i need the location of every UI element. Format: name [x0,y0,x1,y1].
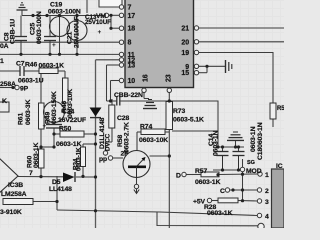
svg-text:0A: 0A [0,43,9,50]
svg-text:15: 15 [181,70,189,77]
svg-text:0603-100N: 0603-100N [48,9,81,16]
svg-text:9P: 9P [20,86,29,93]
svg-text:R73: R73 [173,108,185,115]
svg-text:0603-1K: 0603-1K [56,141,82,148]
svg-text:13: 13 [128,63,136,70]
svg-text:0603-5.1K: 0603-5.1K [173,117,204,124]
svg-text:C24: C24 [62,109,74,116]
svg-text:16V22UF: 16V22UF [58,117,86,124]
svg-text:25V10UF: 25V10UF [85,19,111,26]
svg-text:18: 18 [128,26,136,33]
svg-text:D: D [176,173,181,180]
svg-text:0603-2.7K: 0603-2.7K [124,122,131,153]
svg-text:VM: VM [96,13,106,20]
svg-text:SG: SG [247,160,255,166]
svg-text:R74: R74 [140,124,152,131]
svg-text:0603-1K: 0603-1K [195,179,221,186]
svg-text:0603-1K: 0603-1K [207,210,233,217]
svg-text:2: 2 [265,188,269,195]
svg-text:0603-3K: 0603-3K [25,99,32,125]
svg-text:LM258A: LM258A [1,191,27,198]
svg-text:R57: R57 [195,168,207,175]
svg-text:0603-1K: 0603-1K [76,147,83,171]
svg-text:16: 16 [143,74,150,82]
svg-text:R61: R61 [18,113,25,125]
svg-text:2F: 2F [121,151,129,158]
svg-text:0603-1U: 0603-1U [18,78,44,85]
svg-text:R5: R5 [277,106,284,112]
svg-text:+: + [43,123,47,130]
svg-text:19: 19 [181,50,189,57]
svg-text:23: 23 [165,74,172,82]
svg-text:3-910K: 3-910K [0,209,22,216]
svg-text:25V100UF: 25V100UF [74,16,81,48]
svg-text:7: 7 [128,5,132,12]
svg-text:DVCC: DVCC [105,133,112,151]
svg-text:pp: pp [99,156,107,163]
svg-text:0603-150K: 0603-150K [51,91,58,124]
svg-text:0603-10K: 0603-10K [139,137,168,144]
svg-text:1: 1 [265,172,269,179]
svg-text:C19: C19 [50,2,62,9]
svg-text:+: + [98,29,102,36]
svg-text:+: + [52,42,56,49]
svg-text:D5: D5 [52,179,61,186]
svg-text:0603-1K: 0603-1K [39,63,65,70]
svg-text:4: 4 [265,214,269,221]
svg-text:1: 1 [0,58,4,65]
svg-text:C21: C21 [67,32,74,44]
svg-text:0603-100N: 0603-100N [36,11,43,44]
svg-text:17: 17 [128,13,136,20]
svg-text:MOD: MOD [246,168,262,175]
svg-text:0603-1N: 0603-1N [213,130,220,156]
svg-text:C: C [220,188,225,195]
svg-text:21: 21 [181,26,189,33]
svg-text:K: K [2,98,7,105]
svg-text:10: 10 [128,78,136,85]
svg-text:7: 7 [29,170,33,177]
svg-text:C7: C7 [16,61,25,68]
svg-text:0603-1K: 0603-1K [33,142,40,168]
svg-text:8: 8 [128,40,132,47]
svg-text:258A: 258A [0,81,16,88]
svg-text:C28: C28 [117,115,129,122]
svg-text:R50: R50 [59,126,71,133]
svg-text:20: 20 [181,39,189,46]
svg-text:R46: R46 [25,62,37,69]
svg-text:CBB-1U: CBB-1U [10,19,17,44]
svg-text:C180603-1N: C180603-1N [257,122,264,160]
svg-text:0603-1N: 0603-1N [250,126,257,152]
svg-text:IC3B: IC3B [8,182,23,189]
svg-text:LL4148: LL4148 [49,186,72,193]
svg-text:IC: IC [276,163,283,170]
svg-text:3: 3 [265,199,269,206]
svg-text:CBB-22N: CBB-22N [114,92,143,99]
